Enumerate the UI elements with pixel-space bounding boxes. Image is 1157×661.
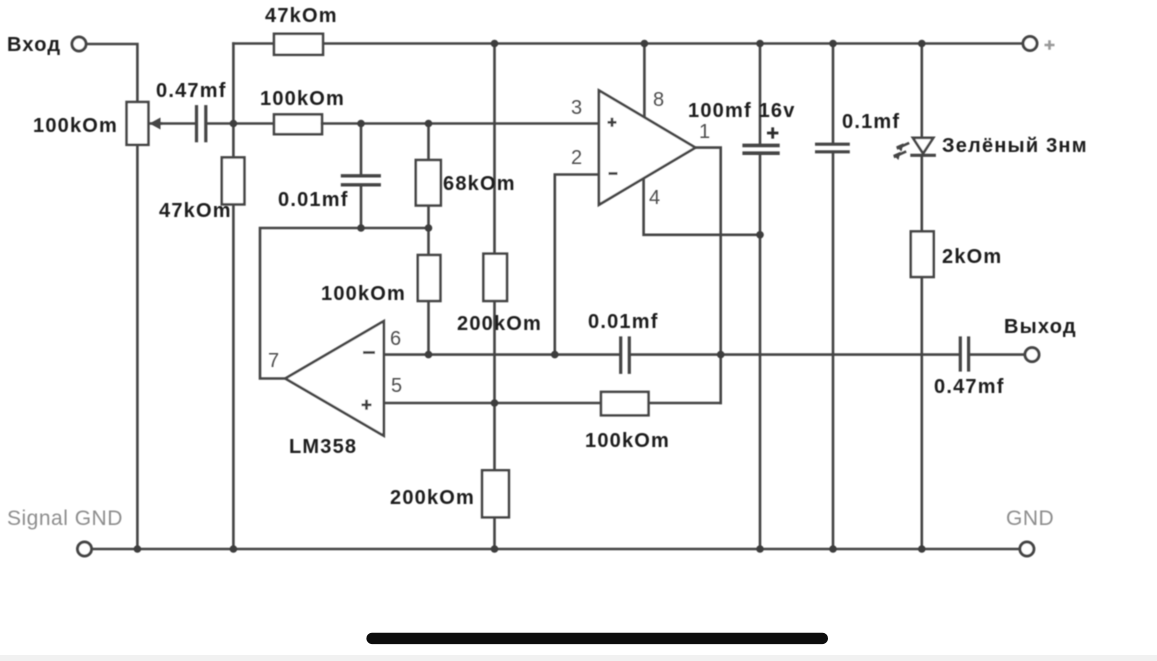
svg-text:LM358: LM358 bbox=[289, 436, 357, 458]
svg-text:3: 3 bbox=[571, 97, 582, 119]
wire 0.1mf branch x=833 bbox=[832, 44, 835, 144]
wire 200k branch x=494.5 bbox=[493, 44, 496, 254]
wire potentiometer bottom to ground rail bbox=[136, 145, 139, 549]
svg-text:2kOm: 2kOm bbox=[942, 246, 1002, 268]
wire pin4 bbox=[644, 178, 760, 235]
resistor R10 2kOm bbox=[911, 231, 934, 277]
capacitor C6 0.1mf bbox=[817, 143, 849, 146]
svg-text:0.47mf: 0.47mf bbox=[934, 376, 1005, 398]
op-amp U1B LM358 bbox=[285, 321, 384, 436]
terminal GND bbox=[1020, 542, 1034, 556]
svg-text:200kOm: 200kOm bbox=[390, 487, 475, 509]
wire 100mf branch x=760 bbox=[759, 44, 762, 145]
svg-text:2: 2 bbox=[571, 147, 582, 169]
wire pin3 line left bbox=[233, 122, 274, 125]
scrollbar black bar bbox=[366, 633, 828, 644]
op-amp U1A bbox=[599, 90, 696, 204]
svg-text:Вход: Вход bbox=[7, 34, 61, 56]
svg-text:7: 7 bbox=[268, 350, 279, 372]
svg-text:5: 5 bbox=[391, 375, 402, 397]
svg-text:GND: GND bbox=[1006, 507, 1054, 530]
wire pin2 bbox=[555, 175, 599, 355]
wire C2 leads bbox=[360, 124, 363, 175]
wire feedback line bbox=[260, 228, 429, 379]
svg-text:0.01mf: 0.01mf bbox=[278, 189, 349, 211]
LED arrows bbox=[898, 144, 908, 149]
capacitor C3 0.01mf series bbox=[619, 338, 622, 372]
terminal Вход bbox=[72, 37, 86, 51]
wire left vertical x=233 top rail to 47k bbox=[232, 44, 235, 124]
resistor R9 100kOm feedback bbox=[601, 392, 649, 415]
svg-text:47kOm: 47kOm bbox=[159, 200, 232, 222]
label plus electrolytic bbox=[767, 127, 778, 138]
wire op-amp1 output down bbox=[695, 148, 720, 403]
resistor R6 100kOm vertical bbox=[418, 255, 441, 301]
wire wiper to C1 bbox=[160, 122, 195, 125]
LED D1 green bbox=[913, 138, 933, 154]
svg-text:100kOm: 100kOm bbox=[260, 88, 345, 110]
capacitor C2 0.01mf bbox=[343, 174, 380, 177]
resistor R8 200kOm lower bbox=[482, 470, 509, 517]
resistor R2 47kOm vertical bbox=[222, 157, 245, 204]
bottom grey strip bbox=[0, 655, 1157, 661]
wire pin3 line right bbox=[322, 122, 599, 125]
svg-text:200kOm: 200kOm bbox=[457, 313, 542, 335]
wire C1 to node A bbox=[208, 122, 234, 125]
wire pin6 output line bbox=[384, 353, 619, 356]
wire ground rail bbox=[92, 548, 1021, 551]
wire pin8 bbox=[643, 44, 646, 119]
terminal Выход bbox=[1025, 348, 1039, 362]
svg-text:4: 4 bbox=[649, 187, 660, 209]
op-amp polarity marks bbox=[362, 118, 618, 410]
svg-text:Зелёный 3нм: Зелёный 3нм bbox=[942, 135, 1088, 157]
svg-text:100kOm: 100kOm bbox=[33, 115, 118, 137]
svg-text:6: 6 bbox=[390, 328, 401, 350]
svg-text:1: 1 bbox=[699, 121, 710, 143]
svg-text:47kOm: 47kOm bbox=[265, 5, 338, 27]
label plus terminal bbox=[1045, 40, 1055, 50]
capacitor C1 0.47mf bbox=[195, 107, 198, 141]
terminal plus bbox=[1023, 37, 1037, 51]
svg-text:100mf 16v: 100mf 16v bbox=[688, 100, 796, 122]
svg-text:0.47mf: 0.47mf bbox=[156, 80, 227, 102]
resistor R4 100kOm series bbox=[274, 114, 322, 134]
svg-text:0.1mf: 0.1mf bbox=[842, 111, 900, 133]
wire 68k branch bbox=[427, 124, 430, 161]
resistor R3 47kOm top bbox=[274, 34, 323, 55]
wire pin5 line bbox=[384, 402, 601, 405]
svg-text:Выход: Выход bbox=[1004, 316, 1077, 338]
potentiometer R1 100kOm bbox=[127, 102, 149, 145]
wire top rail bbox=[233, 42, 274, 45]
wire 47k bottom to ground rail bbox=[232, 204, 235, 549]
wire input to potentiometer bbox=[86, 44, 137, 102]
terminal Signal GND bbox=[78, 542, 92, 556]
resistor R5 68kOm bbox=[416, 160, 441, 206]
svg-text:100kOm: 100kOm bbox=[321, 283, 406, 305]
resistor R7 200kOm upper bbox=[483, 254, 507, 301]
svg-text:68kOm: 68kOm bbox=[443, 173, 516, 195]
svg-text:Signal GND: Signal GND bbox=[7, 507, 123, 530]
capacitor C5 100mf 16v bbox=[744, 144, 778, 148]
svg-text:0.01mf: 0.01mf bbox=[588, 311, 659, 333]
capacitor C4 0.47mf output bbox=[959, 338, 962, 370]
svg-text:8: 8 bbox=[653, 89, 664, 111]
wire LED branch x=921.8 bbox=[920, 44, 923, 138]
svg-text:100kOm: 100kOm bbox=[585, 430, 670, 452]
